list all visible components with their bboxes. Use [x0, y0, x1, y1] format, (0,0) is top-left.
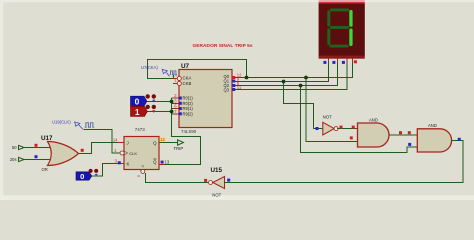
svg-text:0: 0 — [80, 172, 84, 181]
svg-text:U19(CLK): U19(CLK) — [52, 120, 71, 125]
svg-text:1: 1 — [135, 107, 140, 117]
blue state square on U15 input — [227, 179, 230, 182]
wire 7473 R to U15 output — [146, 173, 208, 183]
wire net Q3: U7.Q3 to display pin3 — [232, 63, 347, 90]
red state square before AND2 A — [408, 131, 411, 134]
red state square on OR output — [81, 149, 84, 152]
pin Q1 9 with blue state square — [232, 77, 240, 83]
display pin 1 stub with blue state square — [323, 59, 328, 64]
wire net R0: logicstate 0 box to U7 R0(1) R0(2) — [147, 98, 174, 103]
IC U7 74LS90 counter — [179, 63, 232, 134]
clock generator DCLOCK at CKA — [170, 71, 177, 79]
pin R0(2) 3 — [173, 98, 182, 105]
junction dot Q0/loop — [245, 76, 249, 80]
wire logicstate 0 to 7473 K — [92, 164, 118, 177]
svg-text:Q: Q — [153, 160, 157, 165]
NOT gate U16 — [323, 114, 338, 135]
svg-text:11: 11 — [237, 85, 242, 90]
svg-text:R0(1): R0(1) — [183, 96, 194, 101]
svg-text:TRIP: TRIP — [174, 146, 184, 151]
NOT gate U15 (mirrored, pointing left) — [209, 167, 232, 197]
wire net R9: logicstate 1 box to U7 R9(1) R9(2) and loop to 7473 Qbar — [147, 98, 200, 164]
probe U7(CKA) — [141, 65, 169, 77]
red state square before AND2 B — [350, 136, 353, 139]
display pin 3 stub with blue state square — [342, 59, 347, 64]
pin R0(1) 2 — [173, 93, 182, 100]
wire OR output to 7473 J — [79, 143, 119, 154]
wire net Q0: U7.Q0 to display pin4, loop to CKA, branch to AND1 input B — [148, 60, 358, 142]
red state square on input A — [35, 144, 38, 147]
svg-text:R9(1): R9(1) — [183, 106, 194, 111]
segment G middle (off) — [330, 26, 349, 29]
AND gate 2 — [417, 123, 451, 152]
segment B top-right (on) — [349, 10, 352, 27]
svg-text:13: 13 — [165, 159, 170, 164]
svg-text:12: 12 — [160, 137, 165, 142]
7-segment display AFF1 — [319, 0, 365, 59]
pin Qbar 13 with blue state square — [159, 159, 170, 164]
output terminal TRIP — [174, 140, 184, 151]
pin Q0 12 with red state square — [232, 73, 242, 79]
segment D bottom (off) — [330, 45, 349, 48]
blue state square on input B — [35, 155, 38, 158]
pin Q3 11 with blue state square — [232, 85, 242, 91]
svg-text:14: 14 — [113, 137, 118, 142]
red state square on U15 output — [204, 179, 207, 182]
svg-text:Q3: Q3 — [224, 88, 230, 93]
blue state square on AND2 input B — [408, 143, 411, 146]
blue state square on NOT input — [316, 127, 319, 130]
red state square before AND1 — [352, 126, 355, 129]
svg-text:0: 0 — [135, 97, 140, 107]
svg-text:20s: 20s — [10, 157, 17, 162]
svg-text:CLK: CLK — [129, 151, 137, 156]
wire NOT output to AND1 input A — [337, 128, 357, 130]
pin CKA 14 with clock bubble — [172, 72, 181, 80]
input terminal 50 — [12, 145, 24, 150]
AND gate 1 — [358, 118, 390, 147]
wire AND2 output to long feedback wire — [232, 140, 464, 182]
red state square on AND1 output — [399, 131, 402, 134]
junction dot R0 — [170, 100, 174, 104]
svg-text:NOT: NOT — [212, 192, 221, 197]
svg-text:U15: U15 — [211, 167, 223, 174]
pin Q2 8 with blue state square — [232, 81, 240, 87]
pin Q 12 with yellow tag — [160, 137, 166, 142]
wire DCLOCK to 7473 CLK — [84, 130, 121, 154]
wire terminal 20s to OR input B — [24, 159, 53, 161]
pin R9(1) 6 — [173, 104, 182, 111]
svg-text:OR: OR — [42, 167, 48, 172]
red state square after NOT — [340, 126, 343, 129]
pin CLK 1 with bubble — [114, 148, 124, 155]
svg-text:AND: AND — [369, 118, 378, 123]
svg-text:U7(CKA): U7(CKA) — [141, 65, 158, 70]
logicstate 0 box at 7473 K — [76, 169, 98, 181]
svg-text:U7: U7 — [181, 63, 190, 70]
svg-text:CKB: CKB — [183, 81, 192, 86]
junction dot R9 — [170, 110, 174, 114]
junction dot Q1/NOT — [282, 80, 286, 84]
svg-text:GERADOR SINAL TRIP 5s: GERADOR SINAL TRIP 5s — [193, 43, 253, 49]
pin K 3 with blue state square — [115, 159, 124, 165]
pin J 14 — [113, 137, 124, 142]
display pin 2 stub with blue state square — [332, 59, 337, 64]
wire Q to TRIP terminal — [159, 142, 178, 144]
segment E bottom-left (off) — [327, 29, 330, 46]
logicstate 0 box at U7 R0 — [131, 94, 157, 106]
display pin 4 stub with red state square — [353, 59, 357, 64]
wire net Q2: U7.Q2 to display pin2, branch to AND2 input B — [232, 63, 417, 153]
segment F top-left (off) — [327, 11, 330, 27]
segment A top (off) — [330, 9, 349, 12]
svg-text:50: 50 — [12, 145, 17, 150]
pin R 6 with bubble below chip — [137, 169, 145, 177]
wire net Q1: U7.Q1 to display pin1, branch to NOT input — [232, 63, 328, 129]
svg-text:Q: Q — [153, 140, 157, 145]
svg-text:R9(2): R9(2) — [183, 111, 194, 116]
junction dot Q2/AND2 — [299, 84, 303, 88]
wire AND1 output to AND2 input A — [389, 134, 417, 136]
probe U19(CLK) — [52, 120, 83, 130]
logicstate 1 box at U7 R9 — [131, 105, 157, 117]
blue state square on AND2 output — [458, 138, 461, 141]
pin R9(2) 7 — [173, 109, 182, 116]
svg-text:7473: 7473 — [135, 127, 146, 132]
svg-text:74LS90: 74LS90 — [181, 129, 197, 134]
IC U8 7473 JK flip-flop — [124, 127, 159, 170]
clock generator DCLOCK at 7473 CLK — [85, 123, 94, 127]
svg-text:K: K — [127, 162, 130, 167]
OR gate U17 — [41, 135, 79, 172]
svg-text:6: 6 — [137, 175, 141, 177]
input terminal 20s — [10, 157, 24, 162]
svg-text:AND: AND — [428, 123, 437, 128]
title text GERADOR SINAL TRIP 5s — [193, 43, 253, 49]
wire terminal 50 to OR input A — [24, 147, 53, 149]
svg-text:J: J — [127, 140, 129, 145]
svg-text:NOT: NOT — [323, 114, 332, 119]
svg-text:U17: U17 — [41, 135, 53, 142]
segment C bottom-right (on) — [349, 29, 352, 47]
pin CKB 1 with clock bubble — [173, 78, 181, 86]
junction dot Q0/AND1 — [304, 76, 308, 80]
